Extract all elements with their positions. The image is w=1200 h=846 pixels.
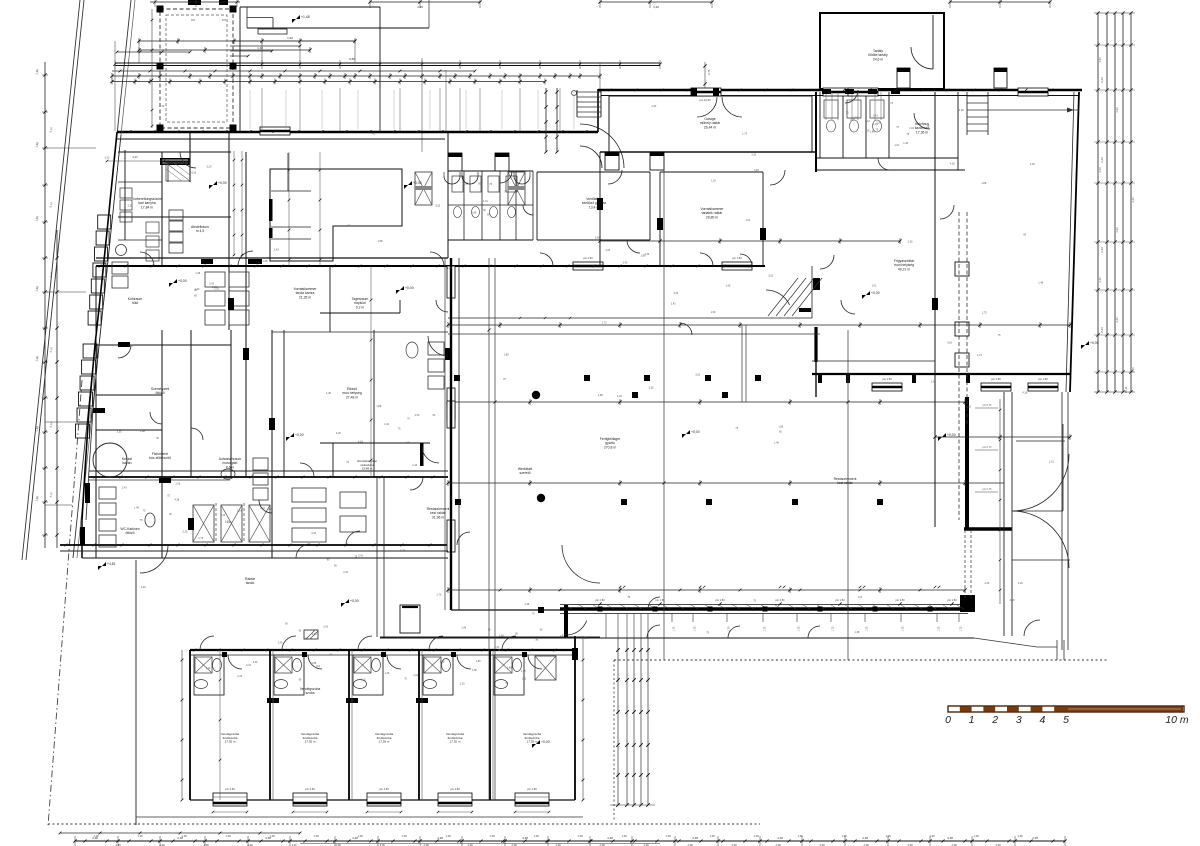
fixtures near 425,340 (428, 342, 444, 355)
svg-text:1,38: 1,38 (797, 834, 803, 838)
svg-text:2,43: 2,43 (1098, 277, 1102, 283)
svg-text:2,43: 2,43 (1131, 197, 1135, 203)
north wall jog (597, 89, 599, 132)
svg-text:24,6 m: 24,6 m (873, 57, 884, 61)
wall pier x816 (814, 327, 817, 362)
svg-text:1,88: 1,88 (931, 381, 936, 384)
top-left small structures (240, 6, 380, 8)
room step rect (270, 169, 402, 261)
band left end jamb and arc (564, 605, 568, 637)
svg-text:2,43: 2,43 (651, 105, 656, 108)
svg-text:4,18: 4,18 (174, 499, 179, 502)
svg-text:75: 75 (398, 427, 401, 430)
svg-text:1,38: 1,38 (1017, 834, 1023, 838)
svg-text:2,26: 2,26 (908, 241, 913, 244)
svg-text:4,38: 4,38 (862, 836, 868, 840)
svg-text:4,18: 4,18 (966, 405, 971, 408)
left block extra micro walls (124, 150, 126, 240)
windows on hall west band (447, 266, 455, 298)
svg-text:1,38: 1,38 (709, 834, 715, 838)
svg-text:4,18: 4,18 (311, 532, 316, 535)
svg-text:1,88: 1,88 (598, 394, 603, 397)
svg-text:17,84 m: 17,84 m (141, 205, 153, 209)
svg-text:1,75: 1,75 (960, 626, 963, 631)
level markers (209, 181, 227, 189)
svg-text:hűtő: hűtő (132, 301, 139, 305)
arcs pass2 (140, 252, 154, 266)
svg-text:pm 1.50: pm 1.50 (895, 599, 905, 602)
svg-text:pm 1.50: pm 1.50 (305, 787, 315, 791)
svg-text:pm 0,75: pm 0,75 (983, 488, 992, 491)
svg-text:1,01: 1,01 (413, 674, 418, 677)
svg-text:5,10: 5,10 (49, 346, 54, 352)
svg-text:4: 4 (1039, 714, 1045, 726)
svg-text:3,20: 3,20 (141, 586, 146, 589)
svg-text:1,48: 1,48 (903, 142, 908, 145)
right WC block (819, 92, 821, 158)
upper area dim ticks row y131 wall (129, 130, 132, 133)
svg-text:1,38: 1,38 (137, 834, 143, 838)
svg-text:60: 60 (779, 430, 782, 433)
svg-text:75: 75 (907, 133, 910, 136)
svg-text:75: 75 (998, 334, 1001, 337)
svg-text:pm 1.50: pm 1.50 (882, 377, 892, 381)
svg-text:2,26: 2,26 (617, 395, 622, 398)
svg-text:60: 60 (194, 294, 197, 297)
svg-text:1,73: 1,73 (982, 311, 987, 314)
svg-text:13,48 m: 13,48 m (362, 467, 373, 471)
svg-text:1,48: 1,48 (326, 392, 331, 395)
elevator dashed shaft (958, 212, 960, 520)
extra window on west band (447, 401, 455, 428)
svg-text:2,26: 2,26 (959, 109, 964, 112)
svg-text:4,18: 4,18 (1030, 163, 1035, 166)
svg-text:2,43: 2,43 (1115, 227, 1119, 233)
canteen area walls (320, 312, 400, 314)
dim vertical right of pier (999, 399, 1001, 604)
svg-text:1,88: 1,88 (778, 425, 783, 428)
svg-text:1,01: 1,01 (1049, 460, 1054, 463)
svg-text:1,75: 1,75 (798, 626, 801, 631)
left wing extra partitions (329, 266, 331, 332)
svg-text:5,10: 5,10 (49, 421, 54, 427)
svg-text:1,88: 1,88 (35, 355, 40, 361)
south rooms verticals below hall west (376, 477, 378, 637)
svg-text:pm 12,30: pm 12,30 (699, 98, 711, 102)
svg-text:21,35 m: 21,35 m (299, 295, 311, 299)
svg-text:75: 75 (346, 461, 349, 464)
terrace lines (1012, 510, 1063, 512)
dim verticals near corridor x234-249 (233, 151, 235, 256)
svg-text:75: 75 (404, 677, 407, 680)
hall south window band (560, 607, 968, 610)
svg-text:1,88: 1,88 (641, 254, 646, 257)
top-right room (820, 13, 944, 89)
pier window labels (975, 407, 998, 409)
svg-text:+0,00: +0,00 (1090, 341, 1099, 345)
X-hatch pantry boxes (193, 505, 214, 542)
south wing side dim verticals (181, 650, 183, 800)
canopy dashed rect (160, 9, 233, 128)
svg-text:hús előkészítő: hús előkészítő (149, 456, 171, 460)
svg-text:2,26: 2,26 (711, 311, 716, 314)
svg-text:90: 90 (169, 513, 172, 516)
svg-text:1,48: 1,48 (461, 626, 466, 629)
svg-text:1,75: 1,75 (764, 626, 767, 631)
svg-text:2,26: 2,26 (460, 682, 465, 685)
svg-text:1,38: 1,38 (489, 834, 495, 838)
garage entrance arcs (697, 97, 717, 117)
svg-text:1,01: 1,01 (711, 179, 716, 182)
svg-text:1,88: 1,88 (140, 430, 145, 433)
staircase top center (576, 90, 578, 117)
svg-text:1,38: 1,38 (225, 834, 231, 838)
svg-text:1,48: 1,48 (774, 441, 779, 444)
svg-text:4,18: 4,18 (1022, 392, 1027, 395)
svg-text:90: 90 (285, 622, 288, 625)
svg-text:öltöző: öltöző (125, 531, 134, 535)
svg-text:2,43: 2,43 (274, 248, 279, 251)
svg-text:3: 3 (1016, 714, 1022, 726)
svg-text:2,43: 2,43 (873, 115, 878, 118)
svg-text:17,35 m: 17,35 m (225, 740, 236, 744)
svg-text:+0,00: +0,00 (871, 291, 880, 295)
secondary bottom dim left (60, 832, 300, 834)
svg-text:3,20: 3,20 (336, 432, 341, 435)
sink cluster 205-270 y270-330 (205, 272, 225, 287)
left dimension chain (44, 62, 46, 548)
svg-text:3,20: 3,20 (768, 274, 773, 277)
ramp threshold (799, 308, 811, 312)
north wall left wing (117, 131, 598, 133)
svg-text:90: 90 (515, 632, 518, 635)
svg-text:75: 75 (846, 112, 849, 115)
svg-text:17,35 m: 17,35 m (450, 740, 461, 744)
svg-text:49,21 m: 49,21 m (898, 267, 910, 271)
svg-text:1,88: 1,88 (35, 285, 40, 291)
SE corner room (1012, 559, 1070, 561)
gray bars under X boxes (415, 186, 432, 190)
svg-text:4,35: 4,35 (417, 5, 423, 9)
dim group verticals up to band (605, 613, 607, 638)
top dim riser lines to wall (261, 88, 263, 131)
svg-text:pm 1.50: pm 1.50 (450, 787, 460, 791)
north wall right wing (598, 89, 1082, 91)
svg-text:4,38: 4,38 (607, 836, 613, 840)
garage door jambs (691, 88, 697, 96)
svg-text:1,38: 1,38 (445, 834, 451, 838)
svg-text:1,38: 1,38 (93, 834, 99, 838)
svg-text:pm 1.50: pm 1.50 (835, 599, 845, 602)
svg-text:1,38: 1,38 (753, 834, 759, 838)
svg-text:1,38: 1,38 (929, 834, 935, 838)
svg-text:1,75: 1,75 (832, 626, 835, 631)
svg-text:2,43: 2,43 (1131, 367, 1135, 373)
svg-text:1,48: 1,48 (134, 507, 139, 510)
svg-text:+1,48: +1,48 (301, 15, 310, 19)
hall interior extra labels/ticks (499, 589, 502, 592)
misc vertical dims in left wing (288, 152, 290, 266)
north rooms south wall y266 (96, 265, 765, 267)
svg-text:pm 1.50: pm 1.50 (527, 787, 537, 791)
svg-text:2,26: 2,26 (176, 483, 181, 486)
svg-text:2,26: 2,26 (227, 521, 232, 524)
svg-text:75: 75 (503, 378, 506, 381)
ramp diagonals NE of hall (768, 278, 798, 316)
right dimension chains (1097, 13, 1099, 392)
window dim riser garage (704, 62, 706, 88)
bottom dimension chain (75, 840, 1065, 842)
svg-text:1,73: 1,73 (742, 133, 747, 136)
wall x600 (599, 152, 601, 266)
svg-text:1,48: 1,48 (521, 670, 526, 673)
svg-text:pm 1.50: pm 1.50 (1038, 377, 1048, 381)
svg-text:tároló: tároló (246, 581, 255, 585)
svg-text:1,92: 1,92 (287, 36, 293, 40)
svg-text:31,96 m: 31,96 m (432, 515, 444, 519)
terrace line below rooms (136, 816, 583, 818)
svg-text:17,35 m: 17,35 m (379, 740, 390, 744)
svg-text:1,01: 1,01 (873, 123, 878, 126)
windows on y266 wall (573, 262, 603, 270)
svg-text:75: 75 (140, 519, 143, 522)
svg-text:1,48: 1,48 (195, 272, 200, 275)
svg-text:1,01: 1,01 (909, 127, 914, 130)
svg-text:75: 75 (535, 639, 538, 642)
svg-text:+4,81: +4,81 (107, 562, 116, 566)
svg-text:1,48: 1,48 (726, 284, 731, 287)
svg-text:29,80 m: 29,80 m (706, 215, 718, 219)
svg-text:1,73: 1,73 (602, 321, 607, 324)
WC block center top (447, 171, 449, 240)
svg-text:1,88: 1,88 (35, 495, 40, 501)
left wing interior walls (118, 151, 231, 153)
corridor dim row y266 (99, 265, 102, 268)
svg-text:75: 75 (753, 600, 756, 603)
svg-text:3,20: 3,20 (754, 169, 759, 172)
svg-text:2,26: 2,26 (649, 386, 654, 389)
svg-text:9,2 m: 9,2 m (356, 305, 365, 309)
small rooms left column (95, 266, 97, 558)
terrace double line east (1003, 392, 1005, 636)
dim vertical in room1 (219, 650, 221, 800)
svg-text:szerelő: szerelő (520, 471, 531, 475)
svg-text:1,88: 1,88 (35, 141, 40, 147)
svg-text:90: 90 (334, 565, 337, 568)
svg-text:1,38: 1,38 (841, 834, 847, 838)
svg-text:1,01: 1,01 (214, 288, 219, 291)
svg-text:1,88: 1,88 (472, 212, 477, 215)
garage room (609, 96, 812, 152)
south hall band hatch marks (565, 605, 572, 609)
svg-text:1,88: 1,88 (472, 669, 477, 672)
hall east pier (965, 397, 969, 530)
svg-text:2,43: 2,43 (865, 120, 870, 123)
svg-text:270,8 m: 270,8 m (604, 445, 616, 449)
svg-text:+0,00: +0,00 (405, 286, 414, 290)
left terrace boundary (135, 560, 137, 825)
svg-text:17,36 m: 17,36 m (916, 130, 928, 134)
band above station double ticks (619, 586, 622, 589)
hatch box on corridor (304, 630, 318, 639)
svg-text:+0,00: +0,00 (947, 433, 956, 437)
svg-text:15,11: 15,11 (1124, 386, 1128, 393)
svg-text:4,18: 4,18 (191, 171, 196, 174)
svg-text:1,73: 1,73 (977, 354, 982, 357)
svg-text:1,88: 1,88 (35, 215, 40, 221)
svg-text:2,26: 2,26 (415, 414, 420, 417)
svg-text:2,43: 2,43 (1115, 107, 1119, 113)
svg-text:75: 75 (407, 418, 410, 421)
svg-text:1,88: 1,88 (263, 260, 268, 263)
svg-text:1,48: 1,48 (385, 672, 390, 675)
svg-text:m 4,5: m 4,5 (196, 229, 205, 233)
svg-text:1,38: 1,38 (885, 834, 891, 838)
svg-text:4,38: 4,38 (522, 836, 528, 840)
svg-text:1,38: 1,38 (269, 834, 275, 838)
corridor pair extension (230, 330, 232, 477)
svg-text:1,38: 1,38 (401, 834, 407, 838)
svg-text:90: 90 (540, 628, 543, 631)
svg-text:pm 0,75: pm 0,75 (983, 446, 992, 449)
svg-text:75: 75 (489, 183, 492, 186)
svg-text:60: 60 (506, 682, 509, 685)
svg-text:2,26: 2,26 (183, 530, 188, 533)
svg-text:60: 60 (433, 414, 436, 417)
south wing top wall ticks (194, 649, 197, 652)
svg-text:1,88: 1,88 (981, 182, 986, 185)
scale bar (948, 706, 1184, 712)
hall west band second line (458, 258, 460, 610)
wall y477 (89, 476, 448, 478)
svg-text:5,10: 5,10 (49, 271, 54, 277)
small dim fan top-left (230, 40, 355, 42)
svg-text:2,26: 2,26 (128, 205, 133, 208)
svg-text:60: 60 (488, 628, 491, 631)
room dim y437 right wing (935, 436, 1070, 438)
svg-text:2,26: 2,26 (278, 642, 283, 645)
site boundary diagonal lines (22, 0, 80, 560)
svg-text:1,48: 1,48 (854, 631, 859, 634)
svg-text:pm 1.50: pm 1.50 (655, 599, 665, 602)
svg-text:1,75: 1,75 (938, 626, 941, 631)
svg-text:1: 1 (969, 714, 975, 726)
top edge above canopy (150, 1, 240, 3)
svg-text:2,26: 2,26 (850, 118, 855, 121)
svg-text:75: 75 (735, 427, 738, 430)
svg-text:1,75: 1,75 (728, 626, 731, 631)
svg-text:1,01: 1,01 (858, 596, 863, 599)
svg-text:2,43: 2,43 (1100, 327, 1104, 333)
svg-text:1,38: 1,38 (665, 834, 671, 838)
svg-text:2,43: 2,43 (595, 236, 600, 239)
svg-text:2,26: 2,26 (673, 292, 678, 295)
svg-text:2,43: 2,43 (1115, 317, 1119, 323)
svg-text:+0,00: +0,00 (541, 740, 550, 744)
svg-text:2,43: 2,43 (358, 554, 363, 557)
svg-text:75: 75 (927, 125, 930, 128)
svg-text:75: 75 (896, 126, 899, 129)
svg-text:pm 1.50: pm 1.50 (732, 256, 742, 260)
svg-text:5,10: 5,10 (49, 126, 54, 132)
windows on north walls (691, 88, 721, 96)
svg-text:kazán: kazán (122, 461, 131, 465)
svg-text:4,18: 4,18 (950, 162, 955, 165)
svg-text:1,73: 1,73 (198, 537, 203, 540)
svg-text:1,75: 1,75 (694, 626, 697, 631)
right wing south wall (812, 373, 1070, 375)
svg-text:75: 75 (532, 612, 535, 615)
svg-text:pm 1.50: pm 1.50 (991, 377, 1001, 381)
svg-text:60: 60 (483, 209, 486, 212)
svg-text:1,38: 1,38 (181, 834, 187, 838)
svg-text:60: 60 (162, 105, 165, 108)
svg-text:2,43: 2,43 (1098, 167, 1102, 173)
svg-text:2,43: 2,43 (671, 302, 676, 305)
svg-text:60: 60 (299, 630, 302, 633)
svg-text:10 m: 10 m (1165, 714, 1189, 726)
svg-text:1,38: 1,38 (357, 834, 363, 838)
svg-text:1,75: 1,75 (673, 626, 676, 631)
svg-text:4,38: 4,38 (692, 836, 698, 840)
band below markers (671, 613, 673, 622)
shelving interior x169 (169, 210, 183, 220)
svg-text:8 8: 8 8 (222, 18, 226, 22)
svg-text:1,48: 1,48 (257, 46, 263, 50)
svg-text:1,01: 1,01 (483, 200, 488, 203)
svg-text:2,26: 2,26 (645, 253, 650, 256)
stairs top right (967, 95, 988, 97)
svg-text:2,26: 2,26 (268, 508, 273, 511)
south corridor line (380, 637, 974, 639)
svg-text:pm 1.50: pm 1.50 (775, 599, 785, 602)
kantine tables (292, 488, 326, 502)
svg-text:pm 0,75: pm 0,75 (983, 404, 992, 407)
svg-text:3,20: 3,20 (105, 156, 110, 159)
svg-text:szoba: szoba (305, 691, 314, 695)
svg-text:4,38: 4,38 (777, 836, 783, 840)
property dash-dot line (48, 380, 82, 826)
svg-text:3,20: 3,20 (653, 5, 659, 9)
svg-text:1,01: 1,01 (522, 677, 527, 680)
svg-text:3,20: 3,20 (695, 373, 700, 376)
columns row B (455, 499, 461, 505)
svg-text:90: 90 (299, 679, 302, 682)
svg-text:1,48: 1,48 (499, 634, 504, 637)
svg-text:2,26: 2,26 (1018, 582, 1023, 585)
svg-text:2,43: 2,43 (122, 487, 127, 490)
svg-text:1,01: 1,01 (745, 219, 750, 222)
X boxes top WC (415, 172, 432, 205)
shower X in last room (535, 656, 556, 680)
top dimension lines (139, 40, 355, 42)
svg-text:1,88: 1,88 (35, 68, 40, 74)
svg-text:17,35 m: 17,35 m (527, 740, 538, 744)
svg-text:2,43: 2,43 (237, 675, 242, 678)
svg-text:+0,00: +0,00 (178, 279, 187, 283)
svg-text:+0,00: +0,00 (691, 430, 700, 434)
svg-text:5: 5 (1063, 714, 1069, 726)
svg-text:1,48: 1,48 (440, 661, 445, 664)
svg-text:2,26: 2,26 (984, 582, 989, 585)
svg-text:90: 90 (327, 558, 330, 561)
boiler circle (93, 443, 127, 477)
svg-text:1,38: 1,38 (313, 834, 319, 838)
west window band of hall (450, 258, 452, 610)
svg-text:pm 1.50: pm 1.50 (595, 599, 605, 602)
svg-text:1,88: 1,88 (504, 353, 509, 356)
svg-text:1,01: 1,01 (316, 665, 321, 668)
